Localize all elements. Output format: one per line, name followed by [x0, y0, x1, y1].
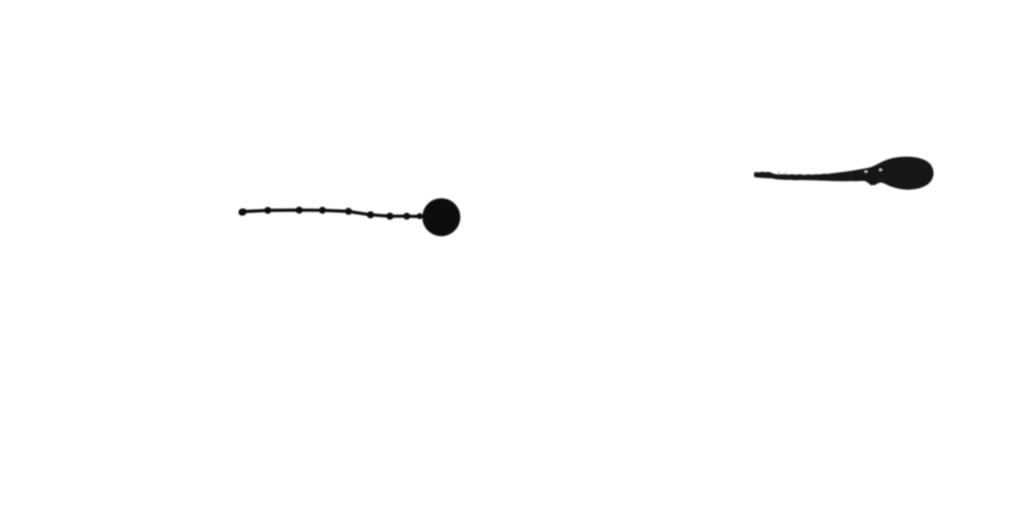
ink white notch 2: [879, 169, 882, 171]
node bead 8: [403, 213, 410, 220]
wire: chain polyline: [242, 210, 425, 217]
ink tail and head silhouette: [754, 157, 934, 190]
node bead 7: [386, 213, 393, 220]
node bead 9: [417, 213, 423, 219]
node bead 1: [238, 207, 248, 216]
node bead 5: [345, 208, 352, 215]
ink brush stroke (right object): tadpole-shaped blob: [754, 157, 934, 190]
node bead 4: [319, 207, 326, 214]
node bead 3: [296, 207, 303, 214]
ink tail speck 1: [778, 172, 780, 174]
node bead 6: [367, 211, 374, 218]
ink tail speck 2: [785, 173, 786, 174]
node bead 2: [264, 207, 271, 214]
ink white notch 1: [865, 171, 868, 173]
head circle: [422, 198, 460, 236]
bead chain (left object): polyline flagellum: [238, 198, 461, 236]
